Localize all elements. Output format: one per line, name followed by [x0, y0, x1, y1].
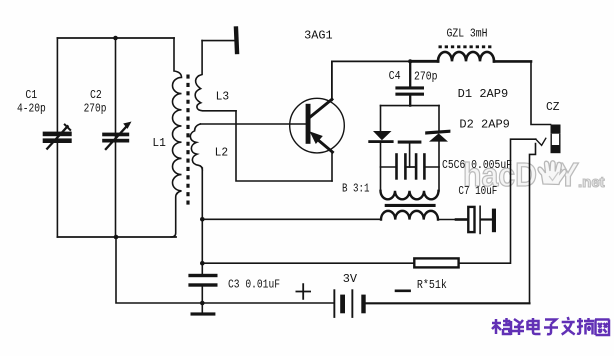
svg-text:L1: L1 [152, 136, 166, 150]
diode D1 [373, 131, 392, 140]
transformer B primary [381, 191, 439, 200]
wire C2 branch vertical [115, 38, 117, 237]
svg-text:3AG1: 3AG1 [304, 28, 333, 42]
wire L2 bottom vertical down to C3 [201, 168, 203, 312]
wire GZL to CZ [494, 60, 531, 63]
svg-text:C3 0.01uF: C3 0.01uF [228, 277, 280, 291]
svg-text:270p: 270p [84, 102, 107, 116]
svg-text:L2: L2 [215, 146, 229, 160]
transistor emitter with arrow [316, 138, 332, 152]
svg-text:3V: 3V [343, 272, 358, 286]
watermark hand logo [538, 161, 566, 185]
transformer B core [385, 204, 436, 207]
svg-text:D1 2AP9: D1 2AP9 [458, 87, 509, 101]
svg-text:4-20p: 4-20p [17, 102, 46, 116]
transformer core (dashed) [186, 75, 189, 207]
node junction L2/secondary [200, 217, 205, 222]
svg-text:GZL 3mH: GZL 3mH [447, 27, 488, 41]
transformer B secondary [381, 211, 438, 220]
wire battery row left [116, 237, 334, 303]
华 [508, 319, 524, 335]
网 [595, 320, 610, 336]
svg-text:L3: L3 [216, 89, 230, 103]
inductor GZL 3mH [438, 52, 494, 62]
子 [544, 320, 558, 335]
inductor L2 winding [190, 124, 202, 170]
inductor L1 winding [171, 38, 182, 237]
watermark 精华电子文摘网 [492, 317, 610, 335]
wire bottom-left rail [57, 236, 176, 238]
capacitor C1 arrow [47, 126, 67, 148]
wire detector top rail [381, 105, 440, 107]
capacitor C1 plates [43, 132, 72, 143]
svg-text:C4: C4 [389, 69, 401, 83]
plus sign [296, 284, 310, 299]
jack CZ body [551, 125, 561, 154]
svg-text:.net: .net [578, 174, 605, 191]
svg-text:C1: C1 [25, 88, 37, 102]
capacitor C2 arrow [106, 125, 128, 149]
svg-text:R*51k: R*51k [417, 278, 447, 292]
battery 3V [333, 289, 365, 318]
wire battery to CZ sleeve [366, 302, 530, 304]
transistor base bar [306, 104, 311, 144]
capacitor C5 [381, 166, 416, 168]
wire R row [202, 262, 414, 264]
svg-text:B 3:1: B 3:1 [342, 182, 370, 196]
antenna [202, 40, 234, 42]
svg-text:C7 10uF: C7 10uF [458, 184, 497, 198]
wire D1 branch [380, 106, 382, 191]
wire D2 branch [438, 106, 440, 191]
GZL core (dashed) [439, 45, 494, 48]
capacitor C3 [188, 274, 217, 287]
node junction C3 bottom [200, 301, 205, 306]
wire C1 branch vertical [56, 38, 58, 237]
node junction C4 tap [408, 59, 412, 63]
diode D2 [425, 130, 450, 135]
capacitor C7 electrolytic [438, 219, 457, 221]
wire secondary left to L2 node [202, 218, 381, 220]
wire top-left rail [57, 37, 174, 39]
capacitor C4 [409, 62, 411, 106]
resistor R*51k [414, 258, 458, 267]
svg-text:CZ: CZ [546, 100, 560, 114]
node junction C3 top [200, 261, 205, 266]
node junction top rail / C2 [113, 36, 118, 41]
wire base from L2 [200, 123, 305, 125]
电 [528, 318, 541, 334]
ground below C3 [191, 312, 216, 315]
capacitor C6 [407, 166, 439, 168]
svg-text:C5C6 0.005uF: C5C6 0.005uF [442, 158, 512, 172]
svg-text:270p: 270p [414, 70, 438, 84]
摘 [577, 318, 594, 335]
文 [562, 317, 575, 335]
node junction bottom rail / C2 [114, 235, 119, 240]
node tap T-bar between C5 C6 [398, 141, 422, 144]
transistor collector [310, 99, 332, 117]
jack CZ switch contact [536, 138, 546, 145]
capacitor C2 plates [102, 133, 129, 143]
minus sign [396, 289, 410, 292]
inductor L3 winding [195, 41, 236, 111]
svg-text:D2 2AP9: D2 2AP9 [459, 118, 510, 132]
精 [492, 318, 510, 334]
svg-text:C2: C2 [90, 88, 102, 102]
wire L3-bottom to emitter loop [236, 111, 332, 181]
watermark haoDY.net [463, 156, 605, 193]
transistor Q1 3AG1 circle [290, 98, 345, 153]
wire top collector rail [332, 60, 410, 62]
